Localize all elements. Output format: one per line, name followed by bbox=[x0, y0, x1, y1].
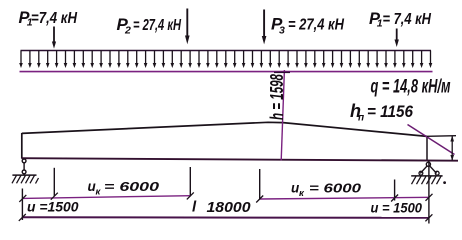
svg-text:l: l bbox=[192, 199, 197, 216]
right support apex circle bbox=[426, 162, 430, 166]
right support ground line bbox=[411, 175, 442, 177]
distributed load arrows bbox=[19, 51, 432, 69]
dimension row2 full span line bbox=[22, 216, 429, 219]
distributed load band bottom line bbox=[20, 71, 433, 73]
distributed load band top line bbox=[21, 50, 432, 52]
right support hatching bbox=[412, 176, 442, 184]
svg-text:= 1156: = 1156 bbox=[367, 103, 414, 121]
extension line uk right start bbox=[259, 169, 261, 200]
force arrow P1 left bbox=[52, 27, 56, 49]
svg-text:= 6000: = 6000 bbox=[309, 181, 362, 196]
svg-text:= 27,4 кН: = 27,4 кН bbox=[133, 17, 181, 34]
svg-text:3: 3 bbox=[279, 25, 285, 37]
beam right edge bbox=[426, 136, 428, 161]
svg-text:= 7,4 кН: = 7,4 кН bbox=[383, 11, 432, 28]
hn leader diagonal line bbox=[408, 125, 455, 155]
force arrow P1 right bbox=[395, 29, 399, 48]
svg-text:к: к bbox=[299, 188, 305, 199]
force arrow P3 bbox=[262, 10, 267, 45]
extension line left end bbox=[21, 189, 23, 221]
dimension slash ticks row2 bbox=[19, 214, 433, 221]
svg-text:q = 14,8 кН/м: q = 14,8 кН/м bbox=[371, 76, 451, 98]
svg-text:h = 1598: h = 1598 bbox=[267, 74, 287, 120]
force arrow P2 bbox=[185, 9, 190, 45]
svg-text:= 27,4 кН: = 27,4 кН bbox=[288, 17, 344, 34]
svg-text:=7,4 кН: =7,4 кН bbox=[31, 10, 78, 27]
right support triangle legs bbox=[420, 166, 436, 174]
svg-text:к: к bbox=[96, 187, 102, 198]
left support hatching bbox=[12, 175, 39, 183]
dimension row1 right line bbox=[260, 197, 430, 199]
beam left edge bbox=[21, 133, 23, 159]
svg-text:п: п bbox=[358, 113, 364, 124]
right support roller circles bbox=[419, 171, 423, 175]
dimension slash ticks row1 bbox=[19, 192, 432, 202]
dimension row1 left line bbox=[23, 196, 191, 199]
hn dimension line with arrows bbox=[450, 135, 454, 161]
h dimension line at midspan bbox=[281, 70, 284, 160]
left support pin circle lower bbox=[22, 170, 26, 174]
svg-text:u = 1500: u = 1500 bbox=[371, 200, 423, 216]
h dimension top tick bbox=[274, 71, 290, 73]
extension line uk left end bbox=[189, 167, 191, 197]
left support pin circle upper bbox=[22, 159, 26, 163]
extension line u/uk left bbox=[53, 168, 55, 197]
svg-text:= 6000: = 6000 bbox=[104, 179, 160, 194]
beam top edge bbox=[22, 122, 427, 136]
svg-text:2: 2 bbox=[124, 25, 131, 37]
right support ground dot bbox=[443, 181, 446, 184]
extension line uk/u right bbox=[394, 180, 396, 201]
beam bottom edge bbox=[22, 158, 459, 161]
left support link bbox=[23, 163, 25, 170]
beam top right extension line bbox=[427, 135, 456, 138]
extension line right end through support bbox=[428, 161, 430, 224]
svg-text:u =1500: u =1500 bbox=[27, 199, 79, 215]
left support ground line bbox=[12, 174, 36, 176]
svg-text:18000: 18000 bbox=[207, 199, 252, 216]
